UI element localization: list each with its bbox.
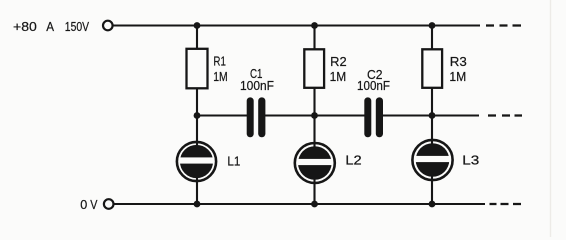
wire branch1 R1 to middle node xyxy=(196,88,198,116)
wire C1 to node2 xyxy=(261,115,315,117)
wire middle dashed continuation xyxy=(488,114,522,116)
svg-text:V: V xyxy=(90,197,97,212)
wire middle node1 to C1 xyxy=(197,115,250,117)
svg-text:0: 0 xyxy=(80,197,87,212)
wire branch1 lamp L1 to bottom rail xyxy=(196,170,198,204)
node bottom junction 2 xyxy=(311,201,318,208)
lamp L2 xyxy=(295,143,335,183)
wire branch2 lamp L2 to bottom rail xyxy=(313,170,315,204)
lamp L1 xyxy=(177,142,216,181)
svg-text:+80: +80 xyxy=(13,19,37,34)
resistor R1 xyxy=(187,49,208,89)
wire branch3 lamp L3 to bottom rail xyxy=(431,170,433,204)
capacitor C1 xyxy=(247,97,266,137)
node middle junction 3 xyxy=(429,112,436,119)
terminal 0V xyxy=(104,199,114,209)
wire branch2 R2 to middle node xyxy=(313,88,315,116)
svg-text:R1: R1 xyxy=(213,55,226,69)
wire node2 to C2 xyxy=(315,115,369,117)
capacitor C2 xyxy=(364,97,383,137)
wire branch2 top rail to R2 xyxy=(313,26,315,50)
node middle junction 1 xyxy=(194,112,201,119)
node bottom junction 3 xyxy=(429,201,436,208)
wire branch3 top rail to R3 xyxy=(431,26,433,50)
svg-text:100nF: 100nF xyxy=(357,79,390,93)
svg-text:1M: 1M xyxy=(213,70,228,84)
terminal +80V xyxy=(103,21,113,31)
svg-text:L1: L1 xyxy=(227,154,240,168)
svg-text:R2: R2 xyxy=(330,55,347,69)
svg-text:L3: L3 xyxy=(462,153,479,167)
wire top rail xyxy=(113,25,480,27)
lamp L3 xyxy=(412,140,452,180)
svg-text:100nF: 100nF xyxy=(240,79,274,93)
svg-text:1M: 1M xyxy=(330,70,347,84)
node bottom junction 1 xyxy=(194,201,201,208)
wire branch1 middle node to lamp L1 xyxy=(196,116,198,156)
svg-text:150V: 150V xyxy=(65,19,90,34)
resistor R3 xyxy=(422,49,442,88)
wire C2 to node3 xyxy=(379,115,432,117)
svg-text:A: A xyxy=(46,19,54,34)
wire branch3 R3 to middle node xyxy=(431,88,433,116)
node top junction branch 1 xyxy=(194,22,201,29)
node top junction branch 3 xyxy=(429,22,436,29)
node top junction branch 2 xyxy=(311,22,318,29)
svg-text:L2: L2 xyxy=(345,153,361,167)
node middle junction 2 xyxy=(311,112,318,119)
wire branch3 middle node to lamp L3 xyxy=(431,116,433,156)
wire bottom rail xyxy=(114,203,485,205)
svg-text:R3: R3 xyxy=(450,55,467,69)
wire bottom rail dashed continuation xyxy=(490,203,522,205)
wire node3 middle right xyxy=(432,115,479,117)
svg-text:1M: 1M xyxy=(449,70,466,84)
wire branch1 top rail to R1 xyxy=(196,26,198,50)
wire top rail dashed continuation xyxy=(486,24,521,26)
resistor R2 xyxy=(304,49,324,88)
wire branch2 middle node to lamp L2 xyxy=(313,116,315,156)
